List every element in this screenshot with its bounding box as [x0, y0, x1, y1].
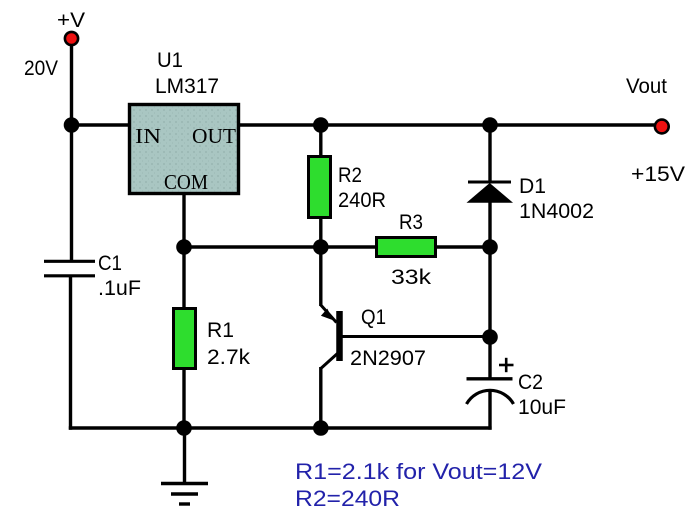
- note R1=2.1k for Vout=12V: [295, 459, 542, 484]
- svg-text:IN: IN: [135, 124, 161, 148]
- wire Q1 collector diagonal: [321, 353, 338, 369]
- junction node R1 / bottom rail: [176, 420, 192, 436]
- wire R1 bottom stem: [182, 368, 185, 429]
- label U1: [157, 49, 183, 72]
- capacitor C1: [44, 261, 95, 276]
- label 240R: [338, 189, 386, 212]
- wire left vertical rail from +V terminal to C1 top plate: [70, 40, 73, 261]
- svg-text:COM: COM: [164, 170, 208, 194]
- resistor R1: [174, 309, 196, 369]
- regulator U1 LM317 body: [130, 105, 239, 195]
- svg-text:240R: 240R: [338, 189, 386, 212]
- svg-text:U1: U1: [157, 49, 183, 72]
- svg-text:Q1: Q1: [361, 306, 386, 329]
- label 20V: [24, 57, 58, 80]
- svg-text:20V: 20V: [24, 57, 58, 80]
- wire second rail: R3 right to D1 junction: [435, 245, 490, 248]
- label 1N4002: [519, 200, 594, 223]
- transistor Q1 base bar: [336, 311, 343, 361]
- svg-text:2N2907: 2N2907: [350, 347, 426, 370]
- junction node second rail / D1 anode: [482, 239, 498, 255]
- junction node base / C2: [482, 329, 498, 345]
- wire Q1 emitter diagonal into base bar: [321, 305, 337, 323]
- label +15V: [631, 163, 685, 186]
- svg-text:LM317: LM317: [155, 75, 219, 98]
- wire R2 bottom stem: [319, 217, 322, 248]
- wire C2 positive stem: [488, 337, 491, 379]
- svg-text:+V: +V: [57, 9, 85, 32]
- junction node collector / bottom rail: [313, 420, 329, 436]
- label 10uF: [518, 396, 566, 419]
- label R3: [399, 211, 423, 234]
- svg-text:C2: C2: [518, 371, 543, 394]
- wire ground stem: [183, 428, 186, 483]
- wire U1 COM pin stem: [182, 194, 185, 248]
- label C2: [518, 371, 543, 394]
- svg-text:10uF: 10uF: [518, 396, 566, 419]
- svg-text:.1uF: .1uF: [98, 277, 141, 300]
- capacitor C2 (polarized): [467, 358, 514, 404]
- transistor label Q1: [361, 306, 386, 329]
- svg-text:Vout: Vout: [626, 75, 667, 98]
- junction node top rail / R2: [313, 117, 329, 133]
- wire second rail: COM junction to R3 left: [184, 245, 377, 248]
- wire D1 junction down to Q1 base junction: [488, 247, 491, 337]
- label R1: [207, 319, 234, 342]
- wire C1 bottom plate to bottom rail: [69, 276, 72, 430]
- junction node COM / second rail: [176, 239, 192, 255]
- terminal Vout: [655, 120, 669, 134]
- svg-text:1N4002: 1N4002: [519, 200, 594, 223]
- label Vout: [626, 75, 667, 98]
- junction node R2 bottom / emitter: [313, 239, 329, 255]
- label +V: [57, 9, 85, 32]
- svg-text:33k: 33k: [391, 266, 432, 289]
- svg-text:C1: C1: [98, 252, 122, 275]
- wire bottom rail: [69, 426, 492, 429]
- note R2=240R: [295, 486, 400, 511]
- wire D1 cathode stem from top rail: [488, 125, 491, 182]
- svg-text:2.7k: 2.7k: [207, 346, 251, 369]
- wire R1 top stem: [182, 247, 185, 309]
- svg-text:OUT: OUT: [192, 124, 236, 148]
- label .1uF: [98, 277, 141, 300]
- svg-text:R1: R1: [207, 319, 234, 342]
- svg-text:R1=2.1k for Vout=12V: R1=2.1k for Vout=12V: [295, 459, 542, 484]
- label R2: [338, 164, 362, 187]
- wire top rail: +V junction to U1 IN pin: [70, 123, 129, 126]
- svg-text:R2: R2: [338, 164, 362, 187]
- label LM317: [155, 75, 219, 98]
- wire C2 bottom stem to bottom rail: [488, 389, 491, 430]
- terminal +V: [65, 32, 78, 45]
- wire Q1 base to D1/C2 column: [342, 335, 490, 338]
- wire top rail: U1 OUT pin to Vout terminal: [239, 123, 660, 126]
- wire R2 top stem: [319, 125, 322, 157]
- svg-text:R3: R3: [399, 211, 423, 234]
- resistor R3: [377, 238, 436, 257]
- label D1: [519, 175, 546, 198]
- wire Q1 collector vertical to bottom rail: [319, 367, 322, 429]
- Q1 emitter arrowhead: [321, 309, 333, 321]
- wire Q1 emitter vertical: [319, 247, 322, 306]
- svg-text:+15V: +15V: [631, 163, 685, 186]
- label C1: [98, 252, 122, 275]
- junction node at +V / U1 IN: [64, 117, 80, 133]
- diode D1: [467, 182, 514, 203]
- ground: [161, 484, 208, 505]
- svg-text:D1: D1: [519, 175, 546, 198]
- label 33k: [391, 266, 432, 289]
- resistor R2: [309, 157, 331, 218]
- label 2N2907: [350, 347, 426, 370]
- wire D1 anode stem to second rail: [488, 202, 491, 248]
- label 2.7k: [207, 346, 251, 369]
- junction node top rail / D1: [482, 117, 498, 133]
- svg-text:R2=240R: R2=240R: [295, 486, 400, 511]
